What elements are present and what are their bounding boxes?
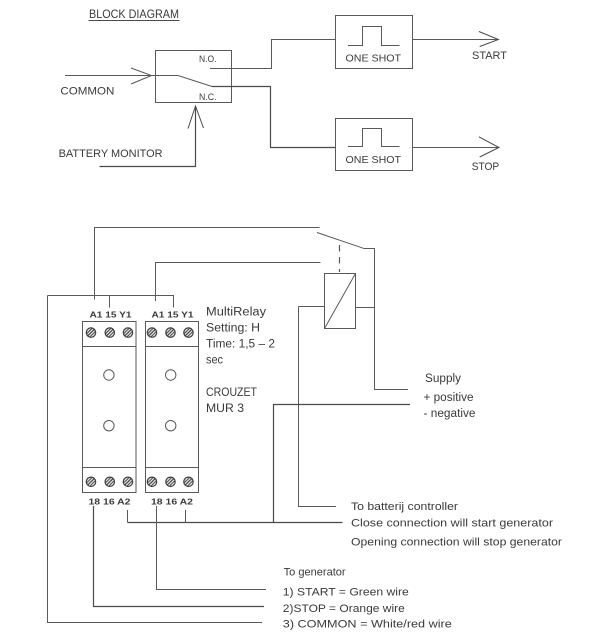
stub module1 A2 [127, 510, 129, 523]
arrowhead START [479, 32, 499, 47]
svg-text:- negative: - negative [424, 408, 476, 420]
svg-text:BATTERY MONITOR: BATTERY MONITOR [59, 148, 163, 160]
relay module M1 body [83, 322, 137, 493]
wire U2 output [413, 147, 500, 149]
stub module2 A2 [185, 510, 187, 523]
svg-text:18 16 A2: 18 16 A2 [89, 497, 131, 507]
module M2 indicator circles [166, 370, 176, 431]
relay coil K1 diagonal [325, 274, 356, 329]
module M1 bottom screw terminals [86, 477, 132, 486]
wire from module1 A1 up and right to switch S1 [95, 228, 320, 300]
bus A2 terminals / close connection [128, 522, 343, 524]
title BLOCK DIAGRAM [89, 7, 180, 21]
svg-text:BLOCK DIAGRAM: BLOCK DIAGRAM [89, 7, 179, 21]
svg-text:ONE SHOT: ONE SHOT [346, 52, 402, 64]
svg-text:STOP: STOP [472, 161, 500, 173]
relay coil K1 box [325, 274, 356, 329]
pulse symbol U1 [348, 27, 400, 46]
bus 15-terminals common [48, 296, 174, 308]
arrowhead STOP [479, 137, 499, 157]
relay contact box (N.O./N.C. switch) [156, 51, 232, 103]
svg-text:1) START = Green wire: 1) START = Green wire [283, 587, 409, 599]
pulse symbol U2 [348, 129, 400, 147]
svg-text:MUR 3: MUR 3 [206, 403, 244, 415]
svg-text:Opening connection will stop g: Opening connection will stop generator [351, 537, 562, 549]
svg-text:Time: 1,5 – 2: Time: 1,5 – 2 [206, 339, 275, 351]
svg-text:Supply: Supply [425, 373, 461, 385]
wire coil to batterij controller [299, 307, 337, 507]
wire U1 output [413, 39, 499, 41]
wire module1 pin18 to STOP [94, 506, 265, 607]
wire switch to supply vertical [364, 249, 409, 390]
wire coil right terminal [356, 307, 375, 309]
wire negative supply [274, 405, 411, 523]
svg-text:18 16 A2: 18 16 A2 [151, 497, 193, 507]
wire COMMON input [65, 75, 178, 77]
svg-text:MultiRelay: MultiRelay [206, 307, 266, 319]
wire from module2 A1 up and right toward coil [156, 263, 321, 302]
module M2 bottom screw terminals [147, 477, 193, 486]
module M2 top terminal strip divider [146, 346, 199, 348]
svg-text:To batterij controller: To batterij controller [351, 501, 458, 513]
stub bus to module1 pin 15 [109, 296, 111, 308]
module M1 top terminal strip divider [83, 346, 137, 348]
svg-text:2)STOP = Orange wire: 2)STOP = Orange wire [283, 603, 405, 615]
wire left common down to COMMON label [48, 296, 263, 623]
arrowhead COMMON [131, 68, 152, 84]
switch S1 arm [317, 233, 364, 249]
module M1 bottom terminal strip divider [83, 467, 137, 469]
wire coil left terminal [299, 306, 325, 308]
module M1 top screw terminals [86, 328, 132, 337]
wire N.C. contact to bottom one-shot [212, 87, 336, 148]
wire BATTERY MONITOR input [100, 107, 196, 167]
svg-text:N.O.: N.O. [199, 54, 217, 64]
relay module M2 body [146, 322, 199, 493]
module M2 top screw terminals [147, 328, 193, 337]
svg-text:Setting: H: Setting: H [206, 323, 260, 335]
svg-text:START: START [472, 50, 507, 62]
svg-text:To generator: To generator [284, 567, 346, 579]
arrowhead BATTERY MONITOR [188, 106, 204, 129]
svg-text:+ positive: + positive [424, 392, 474, 404]
module M1 indicator circles [104, 370, 114, 431]
svg-text:CROUZET: CROUZET [206, 387, 257, 399]
dashed link switch to relay coil [339, 245, 341, 272]
wire module2 pin18 to START [157, 506, 267, 590]
svg-text:3) COMMON = White/red wire: 3) COMMON = White/red wire [283, 619, 452, 631]
module M2 bottom terminal strip divider [146, 467, 199, 469]
switch arm (pole to N.C.) [178, 76, 212, 87]
svg-text:N.C.: N.C. [199, 92, 217, 102]
one-shot U2 box [336, 119, 413, 171]
svg-text:A1 15 Y1: A1 15 Y1 [90, 310, 132, 320]
svg-text:ONE SHOT: ONE SHOT [346, 154, 402, 166]
wire N.O. contact to top one-shot [210, 40, 336, 69]
svg-text:Close connection will start ge: Close connection will start generator [351, 518, 553, 530]
svg-text:sec: sec [206, 355, 223, 367]
svg-text:A1 15 Y1: A1 15 Y1 [152, 310, 194, 320]
svg-text:COMMON: COMMON [60, 85, 114, 97]
one-shot U1 box [336, 16, 413, 69]
